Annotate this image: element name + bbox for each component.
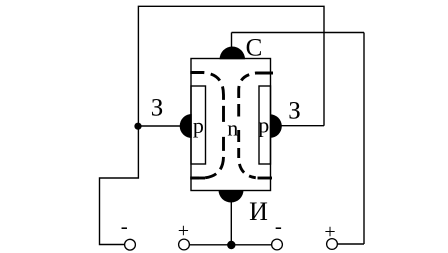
svg-text:n: n — [227, 115, 238, 140]
gate contact left (dome) — [180, 114, 192, 138]
svg-text:p: p — [193, 113, 204, 138]
depletion boundary right, bottom edge dash — [258, 177, 273, 180]
terminal: left plus — [179, 239, 190, 250]
wire: inner top horizontal — [232, 32, 365, 34]
svg-text:+: + — [178, 220, 189, 242]
wire: left gate lead — [138, 125, 180, 127]
terminal: right minus — [272, 239, 283, 250]
drain contact С (dome) — [220, 47, 245, 60]
transistor body (n region) — [191, 59, 271, 191]
wire: drain С to top — [231, 33, 233, 48]
depletion boundary right (dashed) — [239, 73, 273, 178]
depletion boundary left (dashed) — [190, 73, 223, 179]
svg-text:p: p — [258, 113, 269, 138]
svg-text:-: - — [121, 214, 128, 238]
svg-text:С: С — [246, 35, 263, 62]
svg-text:И: И — [249, 197, 268, 226]
source contact И (dome) — [219, 190, 244, 203]
junction: source node — [227, 241, 235, 249]
wire: to right plus terminal — [338, 243, 364, 245]
wire: gate loop (left vertical, top horizontal, right vertical) — [138, 6, 324, 126]
wire: bottom bus — [190, 244, 272, 246]
terminal: left minus — [125, 239, 136, 250]
wire: right outer vertical — [363, 33, 365, 245]
terminal: right plus — [327, 239, 338, 250]
depletion boundary left, bottom edge dash — [190, 177, 205, 180]
gate contact right (dome) — [270, 114, 282, 138]
svg-text:-: - — [275, 214, 282, 238]
wire: left branch to negative terminal — [100, 126, 139, 245]
svg-text:З: З — [151, 94, 164, 121]
junction: gate node — [134, 123, 141, 130]
p region right — [259, 86, 271, 164]
svg-text:З: З — [288, 98, 301, 125]
p region left — [191, 86, 206, 164]
svg-text:+: + — [324, 221, 335, 243]
wire: right gate lead — [281, 125, 324, 127]
wire: source И down to bottom bus — [230, 202, 232, 245]
